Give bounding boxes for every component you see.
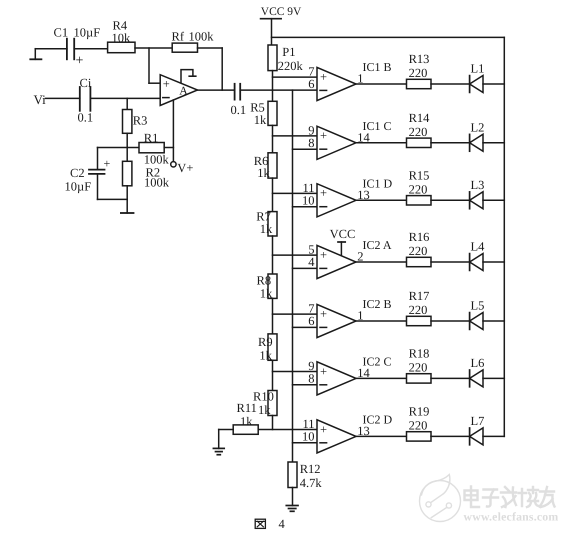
svg-text:R11: R11: [237, 401, 257, 415]
svg-text:+: +: [320, 70, 327, 84]
resistor R17: [407, 289, 432, 326]
wire (ladder tap node 5): [273, 313, 318, 315]
wire (ladder tap node 7): [258, 429, 317, 431]
svg-text:220: 220: [409, 183, 428, 197]
wire: [272, 178, 274, 212]
svg-text:IC1 B: IC1 B: [363, 60, 392, 74]
svg-text:+: +: [320, 248, 327, 262]
capacitor C1: [54, 26, 101, 69]
svg-text:L1: L1: [471, 62, 485, 76]
svg-text:+: +: [76, 54, 84, 69]
svg-text:0.1: 0.1: [231, 103, 247, 117]
power VCC (IC2 A pin): [330, 227, 356, 255]
svg-text:+: +: [163, 77, 170, 91]
svg-text:+: +: [320, 129, 327, 143]
svg-text:10: 10: [302, 430, 315, 444]
resistor R11: [233, 401, 258, 434]
svg-text:0.1: 0.1: [78, 110, 94, 124]
svg-text:L6: L6: [471, 356, 485, 370]
wire (signal to pin 6 of IC1B): [240, 89, 317, 91]
svg-text:4.7k: 4.7k: [300, 476, 323, 490]
op-amp IC1 B: [308, 60, 391, 101]
svg-text:V+: V+: [177, 161, 193, 175]
wire: [483, 199, 504, 201]
wire: [293, 206, 318, 208]
wire: [219, 430, 234, 449]
op-amp A power pin: [181, 70, 196, 83]
svg-text:P1: P1: [282, 45, 295, 59]
wire: [98, 198, 128, 200]
capacitor C2: [65, 148, 111, 200]
svg-text:L4: L4: [471, 240, 486, 254]
LED L3: [470, 178, 485, 209]
wire: [483, 320, 504, 322]
svg-text:R19: R19: [409, 404, 430, 418]
LED L2: [470, 120, 485, 151]
svg-text:220: 220: [409, 361, 428, 375]
resistor R6: [254, 153, 277, 180]
wire: [356, 320, 407, 322]
LED L5: [470, 299, 485, 330]
wire: [431, 142, 470, 144]
op-amp IC1 D: [302, 176, 393, 217]
ground: [121, 186, 134, 213]
svg-text:IC2 A: IC2 A: [363, 238, 392, 252]
svg-text:220: 220: [409, 66, 428, 80]
wire: [356, 142, 407, 144]
resistor R10: [253, 389, 277, 417]
wire: [356, 261, 407, 263]
wire: [272, 360, 274, 390]
wire: [126, 98, 128, 109]
op-amp IC2 B: [308, 297, 391, 338]
LED L4: [470, 240, 486, 271]
resistor R18: [407, 346, 432, 383]
ground: [286, 506, 298, 512]
svg-text:L7: L7: [471, 414, 485, 428]
svg-text:10µF: 10µF: [74, 26, 101, 40]
ground: [213, 448, 224, 454]
svg-text:10µF: 10µF: [65, 180, 92, 194]
wire: [90, 97, 160, 99]
svg-text:+: +: [104, 156, 111, 170]
wire: [431, 377, 470, 379]
svg-text:8: 8: [308, 136, 314, 150]
svg-text:R12: R12: [300, 462, 321, 476]
LED L1: [470, 62, 485, 93]
op-amp IC2 A: [308, 238, 392, 279]
svg-text:R8: R8: [257, 274, 272, 288]
caption Figure 4: [255, 517, 285, 531]
resistor R14: [407, 111, 432, 148]
node V+: [171, 100, 194, 175]
wire: [431, 435, 470, 437]
op-amp IC2 D: [302, 412, 393, 453]
wire: [164, 147, 173, 149]
wire: [431, 320, 470, 322]
svg-text:220: 220: [409, 303, 428, 317]
LED L6: [470, 356, 485, 387]
svg-text:220: 220: [409, 244, 428, 258]
svg-text:Ci: Ci: [80, 76, 92, 90]
svg-text:6: 6: [308, 77, 314, 91]
svg-text:1k: 1k: [259, 348, 272, 362]
svg-text:L3: L3: [471, 178, 485, 192]
svg-text:1k: 1k: [240, 415, 253, 429]
svg-text:C1: C1: [54, 26, 69, 40]
svg-text:R14: R14: [409, 111, 431, 125]
svg-text:R16: R16: [409, 230, 430, 244]
wire: [292, 488, 294, 506]
svg-text:IC1 C: IC1 C: [363, 119, 392, 133]
svg-text:VCC: VCC: [330, 227, 356, 241]
power VCC 9V: [261, 6, 302, 45]
wire: [198, 48, 223, 90]
watermark text: [465, 487, 555, 508]
svg-text:IC2 D: IC2 D: [363, 412, 393, 426]
wire: [35, 48, 67, 50]
svg-text:4: 4: [279, 517, 286, 531]
svg-text:R9: R9: [258, 335, 273, 349]
svg-text:L5: L5: [471, 299, 485, 313]
wire: [126, 133, 128, 147]
svg-text:220: 220: [409, 419, 428, 433]
svg-text:1k: 1k: [260, 287, 273, 301]
resistor R15: [407, 168, 432, 205]
wire: [198, 89, 235, 91]
op-amp A: [160, 75, 197, 106]
svg-text:R3: R3: [133, 114, 148, 128]
wire (ladder tap node 1): [273, 76, 318, 78]
wire: [74, 48, 107, 50]
resistor R4: [108, 19, 135, 53]
resistor R16: [407, 230, 432, 267]
wire: [356, 83, 407, 85]
resistor R13: [407, 52, 432, 89]
wire: [293, 267, 318, 269]
svg-text:R15: R15: [409, 168, 430, 182]
wire: [483, 435, 504, 437]
wire: [293, 148, 318, 150]
wire: [431, 261, 470, 263]
potentiometer P1: [268, 45, 304, 73]
resistor R19: [407, 404, 432, 441]
capacitor Ci: [78, 76, 94, 124]
wire (ladder tap node 4): [273, 254, 318, 256]
svg-text:IC2 C: IC2 C: [363, 354, 392, 368]
ground: [30, 49, 41, 60]
wire (top rail): [272, 36, 505, 38]
resistor R9: [258, 334, 277, 363]
wire (ladder tap node 3): [273, 192, 318, 194]
wire (ladder tap node 6): [273, 371, 318, 373]
svg-text:100k: 100k: [144, 152, 170, 166]
svg-text:10k: 10k: [112, 31, 132, 45]
wire: [46, 97, 80, 99]
watermark logo: [420, 475, 461, 522]
wire: [483, 261, 504, 263]
svg-text:+: +: [320, 364, 327, 378]
resistor R12: [288, 462, 322, 490]
wire: [356, 199, 407, 201]
wire: [272, 416, 274, 430]
wire: [149, 48, 160, 83]
resistor R2: [123, 148, 170, 190]
svg-text:220k: 220k: [278, 59, 304, 73]
op-amp IC2 C: [308, 354, 391, 395]
wire: [272, 236, 274, 274]
svg-text:1k: 1k: [257, 166, 270, 180]
resistor R7: [256, 209, 277, 236]
wire (signal bus): [292, 90, 294, 462]
wire: [293, 326, 318, 328]
wire: [272, 298, 274, 334]
svg-text:220: 220: [409, 125, 428, 139]
resistor R5: [250, 100, 277, 127]
wire: [135, 47, 172, 49]
svg-text:1k: 1k: [260, 222, 273, 236]
capacitor 0.1: [231, 84, 247, 117]
op-amp IC1 C: [308, 119, 391, 160]
wire: [483, 377, 504, 379]
wire: [431, 83, 470, 85]
svg-text:10: 10: [302, 194, 315, 208]
svg-text:A: A: [179, 83, 188, 97]
wire: [356, 435, 407, 437]
svg-text:1k: 1k: [258, 403, 271, 417]
svg-text:+: +: [320, 422, 327, 436]
wire (ladder tap node 2): [273, 135, 318, 137]
svg-text:C2: C2: [70, 166, 85, 180]
wire: [356, 377, 407, 379]
svg-text:8: 8: [308, 372, 314, 386]
wire: [293, 442, 318, 444]
svg-text:100k: 100k: [144, 175, 170, 189]
wire: [272, 71, 274, 102]
svg-text:R17: R17: [409, 289, 430, 303]
wire (right LED bus): [503, 37, 505, 436]
wire: [98, 147, 140, 149]
svg-text:IC1 D: IC1 D: [363, 176, 393, 190]
svg-text:R18: R18: [409, 346, 430, 360]
svg-text:+: +: [320, 186, 327, 200]
svg-text:VCC: VCC: [261, 6, 285, 18]
svg-text:www.elecfans.com: www.elecfans.com: [464, 510, 559, 524]
svg-text:100k: 100k: [189, 29, 215, 43]
svg-text:+: +: [320, 307, 327, 321]
resistor R3: [123, 110, 148, 134]
svg-text:R1: R1: [144, 131, 159, 145]
wire: [431, 199, 470, 201]
svg-text:1k: 1k: [254, 113, 267, 127]
svg-text:R13: R13: [409, 52, 430, 66]
svg-text:6: 6: [308, 314, 314, 328]
resistor R1: [139, 131, 170, 167]
svg-text:Vi: Vi: [34, 92, 47, 107]
svg-text:L2: L2: [471, 120, 485, 134]
wire: [293, 384, 318, 386]
svg-text:9V: 9V: [287, 6, 302, 18]
svg-text:IC2 B: IC2 B: [363, 297, 392, 311]
svg-text:4: 4: [308, 255, 315, 269]
wire: [272, 125, 274, 152]
svg-text:Rf: Rf: [172, 29, 185, 43]
wire: [483, 142, 504, 144]
LED L7: [470, 414, 485, 445]
resistor R8: [257, 274, 278, 301]
wire: [483, 83, 504, 85]
resistor Rf: [172, 29, 215, 52]
